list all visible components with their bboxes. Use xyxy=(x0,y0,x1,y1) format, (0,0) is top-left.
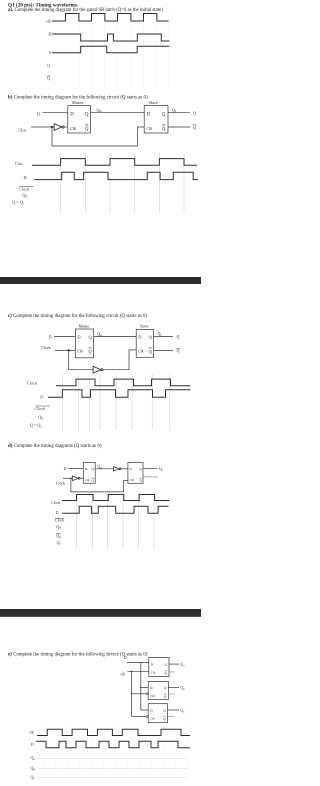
node QB label (e) xyxy=(181,686,186,691)
node Qmbar row label (d) xyxy=(56,534,61,540)
wire clock waveform (d) xyxy=(62,495,169,501)
wire D input (c) xyxy=(54,335,75,337)
node Q label (a) xyxy=(47,63,50,68)
svg-text:Master: Master xyxy=(79,325,91,329)
wire clock input (c) xyxy=(55,349,75,351)
svg-text:Clock: Clock xyxy=(41,345,51,350)
wire clk input to box A (e) xyxy=(128,670,149,672)
wire D rail down (e) xyxy=(140,663,142,711)
svg-text:Slave: Slave xyxy=(149,100,158,105)
flip-flop box B (e) xyxy=(146,681,168,699)
wire clock routing to box2 (d) xyxy=(71,478,128,492)
wire Qm master to slave (b) xyxy=(91,112,145,114)
wire D input to box A (e) xyxy=(127,662,149,664)
svg-text:a). Complete the timing diagra: a). Complete the timing diagram for the … xyxy=(8,8,163,13)
wire D waveform (e) xyxy=(36,741,190,748)
node QC row label (e) xyxy=(31,776,36,781)
svg-text:Clock: Clock xyxy=(55,519,64,523)
node clk input label (e) xyxy=(121,672,126,676)
page break bar 2 xyxy=(0,609,201,617)
inverter on master clock (b) xyxy=(54,124,68,131)
node D waveform label (d) xyxy=(56,511,59,515)
wire QC output (e) xyxy=(168,709,180,711)
node QA row label (e) xyxy=(31,756,36,761)
node Qs output label (d) xyxy=(159,467,163,472)
wire D waveform (c) xyxy=(48,390,191,398)
node Qm label (d) xyxy=(98,464,103,469)
wire inverter to slave clk (c) xyxy=(103,350,136,370)
flip-flop box A (e) xyxy=(149,658,169,677)
wire Q output (b) xyxy=(168,112,190,114)
svg-text:D: D xyxy=(37,111,40,116)
node Clockbar label (b) xyxy=(19,186,33,191)
wire QA baseline (e) xyxy=(38,757,187,759)
svg-text:D: D xyxy=(147,113,151,118)
wire D waveform (d) xyxy=(62,506,169,513)
svg-text:D: D xyxy=(31,743,34,747)
junction D rail at box B (e) xyxy=(140,687,141,688)
node clk waveform label (e) xyxy=(29,731,34,735)
wire clock waveform (b) xyxy=(32,159,197,166)
wire clock input (d) xyxy=(63,477,72,479)
node Clock waveform label (c) xyxy=(27,381,38,386)
svg-text:Q: Q xyxy=(193,125,196,130)
gridlines section a xyxy=(79,14,169,87)
node Clockbar label (c) xyxy=(35,406,49,411)
node Qm row label (b) xyxy=(22,192,28,198)
node Q output label (c) xyxy=(177,334,180,339)
node Clock input label (c) xyxy=(41,345,51,350)
node QC label (e) xyxy=(181,709,186,714)
svg-text:Q: Q xyxy=(177,334,180,339)
svg-text:D: D xyxy=(24,175,27,180)
svg-text:Slave: Slave xyxy=(140,325,149,329)
node Cloc label (b) xyxy=(19,127,27,132)
wire clk stub to box B (e) xyxy=(132,693,147,695)
node D input label (b) xyxy=(37,111,40,116)
node Qbar output label (b) xyxy=(193,125,196,130)
node Qbar output label (c) xyxy=(177,348,180,353)
node S label (a) xyxy=(49,50,51,55)
svg-text:D: D xyxy=(56,511,59,515)
node QA label (e) xyxy=(181,663,186,668)
junction clock (b) xyxy=(51,126,53,128)
node Clock waveform label (d) xyxy=(51,501,60,505)
wire S waveform (a) xyxy=(52,46,169,53)
svg-text:D: D xyxy=(64,467,67,471)
wire D stub to box C (e) xyxy=(141,709,148,711)
svg-text:S: S xyxy=(49,50,51,55)
junction clk input (e) xyxy=(131,671,132,672)
section d heading xyxy=(8,444,102,449)
node Q equals Qs row label (c) xyxy=(30,423,42,429)
svg-text:Clock: Clock xyxy=(56,482,65,486)
wire clk waveform (a) xyxy=(52,14,169,22)
section e heading xyxy=(8,652,148,657)
node D waveform label (c) xyxy=(40,395,43,400)
node Qs label (c) xyxy=(158,332,162,337)
wire QCbar stub (e) xyxy=(168,716,175,718)
wire D waveform (b) xyxy=(34,172,198,179)
svg-text:Clk: Clk xyxy=(70,126,76,131)
node clk label (a) xyxy=(46,18,51,23)
node Qbar label (a) xyxy=(47,76,50,81)
wire QA output (e) xyxy=(169,663,179,665)
wire QAbar stub (e) xyxy=(169,671,175,673)
node QB row label (e) xyxy=(31,766,36,771)
svg-text:Q: Q xyxy=(162,113,166,118)
node Qm label (c) xyxy=(97,332,102,337)
svg-text:Q: Q xyxy=(47,76,50,81)
flip-flop Slave (b) xyxy=(144,100,168,133)
svg-text:Q: Q xyxy=(162,127,166,132)
wire R waveform (a) xyxy=(52,34,169,41)
node Qs row label (d) xyxy=(57,541,61,546)
svg-text:clk: clk xyxy=(29,731,34,735)
flip-flop Master (c) xyxy=(75,325,93,358)
svg-text:Clk: Clk xyxy=(85,478,90,482)
node Qm label (b) xyxy=(97,107,103,113)
gridlines section c xyxy=(62,374,169,431)
wire clock waveform (c) xyxy=(56,379,191,386)
wire clk waveform (e) xyxy=(37,729,190,735)
node R label (a) xyxy=(48,31,51,36)
flip-flop Master (b) xyxy=(68,100,91,133)
wire Qm box1 to inverter (d) xyxy=(95,468,113,470)
svg-text:Clk: Clk xyxy=(150,694,155,698)
wire Q output (c) xyxy=(154,335,173,337)
wire clk rail down (e) xyxy=(131,671,133,716)
svg-text:Clk: Clk xyxy=(129,478,134,482)
svg-text:R: R xyxy=(48,31,51,36)
svg-text:Clock: Clock xyxy=(27,381,38,386)
node D input label (c) xyxy=(49,334,52,339)
flip-flop Slave (c) xyxy=(136,325,153,358)
inverter on box1 clock (d) xyxy=(72,476,83,481)
svg-text:Q: Q xyxy=(85,113,89,118)
svg-text:Clk: Clk xyxy=(151,671,156,675)
svg-text:Clk: Clk xyxy=(138,349,144,354)
node Qs label (b) xyxy=(172,107,176,113)
svg-text:D: D xyxy=(77,335,80,340)
svg-text:Clk: Clk xyxy=(150,717,155,721)
wire D input (b) xyxy=(43,112,68,114)
wire Qbar stub (d) xyxy=(143,476,158,478)
node Qm row label (d) xyxy=(56,525,61,530)
svg-text:Q: Q xyxy=(177,348,180,353)
svg-text:Cloc: Cloc xyxy=(15,161,23,166)
svg-text:clk: clk xyxy=(46,18,51,23)
svg-text:Clk: Clk xyxy=(77,349,83,354)
node Cloc waveform label (b) xyxy=(15,161,23,166)
wire Qbar output (b) xyxy=(168,126,190,128)
svg-text:D: D xyxy=(49,334,52,339)
svg-text:Q: Q xyxy=(85,127,89,132)
flip-flop box1 master (d) xyxy=(83,462,95,483)
wire clock routing to slave (b) xyxy=(52,127,144,146)
svg-text:D: D xyxy=(70,113,74,118)
node D waveform label (e) xyxy=(31,743,34,747)
node Clock input label (d) xyxy=(56,482,65,486)
node D waveform label (b) xyxy=(24,175,27,180)
svg-text:D: D xyxy=(124,656,127,660)
page break bar 1 xyxy=(0,277,201,284)
node Q output label (b) xyxy=(193,111,196,116)
wire clock branch down (c) xyxy=(69,350,93,369)
wire clock input (b) xyxy=(31,126,55,128)
node Qm row label (c) xyxy=(38,414,44,420)
flip-flop box C (e) xyxy=(146,704,167,723)
wire D input (d) xyxy=(68,467,83,469)
svg-text:Q: Q xyxy=(47,63,50,68)
wire clk stub to box C (e) xyxy=(132,716,147,718)
svg-text:e) Complete the timing diagram: e) Complete the timing diagram for the f… xyxy=(8,652,148,657)
svg-text:d) Complete the timing diagram: d) Complete the timing diagrams (Q start… xyxy=(8,444,102,449)
wire QB baseline (e) xyxy=(38,767,187,769)
wire QB output (e) xyxy=(168,687,179,689)
svg-text:Q: Q xyxy=(193,111,196,116)
section b heading xyxy=(8,96,148,101)
svg-text:D: D xyxy=(40,395,43,400)
node Q equals Qs row label (b) xyxy=(12,199,24,205)
svg-text:Clock: Clock xyxy=(19,186,30,191)
wire Qbar output (c) xyxy=(154,349,173,351)
node D input label (e) xyxy=(124,656,127,660)
section c heading xyxy=(8,314,147,319)
wire Qm master to slave (c) xyxy=(94,335,137,337)
svg-text:Clock: Clock xyxy=(35,406,46,411)
gridlines section d xyxy=(77,494,154,549)
node D input label (d) xyxy=(64,467,67,471)
wire QBbar stub (e) xyxy=(168,693,174,695)
svg-text:D: D xyxy=(138,335,141,340)
junction clk rail at box B (e) xyxy=(131,693,132,694)
svg-text:Cloc: Cloc xyxy=(19,127,27,132)
wire QC baseline (e) xyxy=(38,777,187,779)
node Clockbar label (d) xyxy=(55,518,64,522)
svg-text:Master: Master xyxy=(72,100,84,105)
gridlines section b xyxy=(61,153,184,213)
inverter between box1 and box2 (d) xyxy=(113,467,128,472)
junction clock (c) xyxy=(68,349,70,351)
svg-text:c) Complete the timing diagram: c) Complete the timing diagram for the f… xyxy=(8,314,147,319)
svg-text:Clk: Clk xyxy=(146,126,152,131)
wire D stub to box B (e) xyxy=(141,687,148,689)
gridlines section e xyxy=(44,727,187,778)
svg-text:Clock: Clock xyxy=(51,501,60,505)
junction clock (d) xyxy=(70,478,72,480)
title text Q1 xyxy=(8,1,163,13)
svg-text:clk: clk xyxy=(121,672,126,676)
inverter on slave clock (c) xyxy=(93,366,103,373)
wire Q output (d) xyxy=(143,468,158,470)
flip-flop box2 slave (d) xyxy=(128,462,143,483)
